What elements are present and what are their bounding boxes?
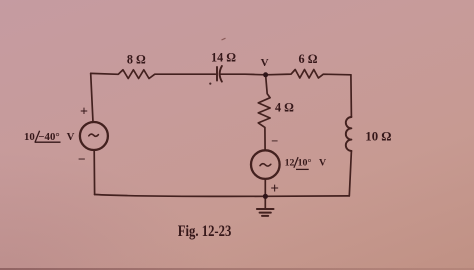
- svg-text:10: 10: [24, 131, 35, 143]
- svg-text:V: V: [261, 57, 269, 69]
- svg-text:−40°: −40°: [38, 131, 59, 143]
- svg-text:12: 12: [285, 158, 295, 169]
- svg-text:4 Ω: 4 Ω: [275, 101, 294, 115]
- svg-text:+: +: [80, 105, 88, 120]
- svg-text:−: −: [78, 152, 86, 167]
- svg-text:10 Ω: 10 Ω: [365, 130, 391, 144]
- svg-text:14 Ω: 14 Ω: [211, 51, 236, 65]
- svg-text:V: V: [67, 131, 75, 143]
- svg-text:−: −: [271, 134, 278, 148]
- svg-text:8 Ω: 8 Ω: [127, 53, 146, 67]
- svg-text:V: V: [319, 158, 327, 169]
- svg-text:+: +: [270, 181, 279, 197]
- svg-text:10°: 10°: [298, 158, 312, 169]
- svg-text:6 Ω: 6 Ω: [299, 52, 318, 66]
- svg-text:Fig. 12-23: Fig. 12-23: [178, 223, 232, 240]
